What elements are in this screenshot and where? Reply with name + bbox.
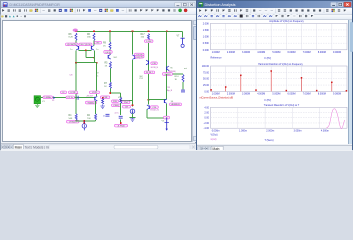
wire mid column x120.7 xyxy=(120,93,122,97)
svg-text:v(out): v(out) xyxy=(210,138,216,141)
current source I2 xyxy=(130,109,135,114)
resistor R9 xyxy=(109,42,111,49)
transistor Q13 labels xyxy=(150,106,159,112)
window R vertical scrollbar xyxy=(348,20,352,145)
window R toolbar row 2 xyxy=(197,15,352,20)
svg-text:R6: R6 xyxy=(87,34,91,36)
svg-text:IC3R: IC3R xyxy=(103,97,108,99)
svg-text:R14: R14 xyxy=(175,76,180,78)
svg-text:9F: 9F xyxy=(76,94,79,96)
wire R17 down xyxy=(148,43,150,101)
wire R9 column xyxy=(109,31,111,54)
window L status strip xyxy=(1,149,197,151)
node VCC label xyxy=(73,29,78,32)
transistor Q1 box label xyxy=(86,101,97,104)
window R status strip xyxy=(197,150,352,151)
resistor R2 label xyxy=(87,115,91,120)
wire V17 node xyxy=(120,100,133,102)
svg-text:1u: 1u xyxy=(96,49,98,51)
svg-text:40p_N: 40p_N xyxy=(167,90,173,92)
label JL P500 xyxy=(115,124,128,127)
svg-text:3.000M: 3.000M xyxy=(242,51,250,54)
schematic vertical scrollbar xyxy=(192,20,197,142)
wire R14 to C11 xyxy=(182,82,184,90)
plot 2 legend xyxy=(199,96,271,101)
svg-text:R5: R5 xyxy=(105,63,109,65)
plots background xyxy=(197,20,348,145)
window L toolbar row 1 xyxy=(1,8,197,15)
window R page tab bar xyxy=(197,145,352,150)
svg-text:96: 96 xyxy=(170,67,173,69)
svg-text:6.000M: 6.000M xyxy=(287,92,295,95)
svg-text:4.000m: 4.000m xyxy=(320,129,328,132)
resistor R7 label xyxy=(104,83,108,88)
svg-text:C9d: C9d xyxy=(124,102,128,104)
svg-text:96.7 Q9 96: 96.7 Q9 96 xyxy=(81,44,92,46)
resistor R5 label xyxy=(105,63,109,68)
transistor Q14 labels xyxy=(163,67,176,76)
svg-text:R7: R7 xyxy=(104,83,108,85)
svg-text:96 96.7: 96 96.7 xyxy=(146,72,154,74)
svg-text:1.50K: 1.50K xyxy=(202,28,209,31)
resistor R2 xyxy=(95,114,97,120)
resistor R7 xyxy=(109,82,111,89)
svg-text:4.000M: 4.000M xyxy=(257,92,265,95)
svg-text:1u: 1u xyxy=(70,49,72,51)
transistor Q5 xyxy=(78,46,80,50)
svg-text:4.7u: 4.7u xyxy=(115,112,120,114)
svg-text:8.000M: 8.000M xyxy=(317,51,325,54)
svg-text:F (Hz): F (Hz) xyxy=(264,99,271,102)
label on output wire xyxy=(164,116,170,119)
svg-text:25.00: 25.00 xyxy=(203,84,210,87)
transistor Q6 xyxy=(107,55,109,59)
label R3 xyxy=(95,41,102,44)
plot 3 frame and grid xyxy=(210,107,347,128)
svg-text:R17: R17 xyxy=(141,34,146,36)
capacitor C1 labels xyxy=(61,91,78,99)
capacitor C11 label xyxy=(167,87,173,92)
transistor Q12 xyxy=(148,61,150,65)
plot 2 y axis labels xyxy=(201,65,209,93)
svg-text:1.00K: 1.00K xyxy=(202,35,209,38)
svg-text:Q5 96(2N): Q5 96(2N) xyxy=(67,44,77,46)
I2 labels xyxy=(123,105,131,108)
resistor R6 label xyxy=(87,34,91,39)
svg-text:JH 8025: JH 8025 xyxy=(69,122,77,124)
wire I2 down xyxy=(130,114,136,118)
transistor Q1 xyxy=(94,97,96,101)
resistor R12 xyxy=(120,97,122,103)
svg-text:966362: 966362 xyxy=(88,102,96,104)
plot 3 transient waveform xyxy=(326,108,345,128)
svg-text:Transient Waveform of V(Out) v: Transient Waveform of V(Out) vs T xyxy=(263,103,299,106)
svg-text:2.00: 2.00 xyxy=(204,111,209,114)
ground below V1 xyxy=(36,104,38,105)
wire Q10 column xyxy=(132,31,134,54)
transistor Q14 xyxy=(166,67,168,71)
svg-text:C1MQ: C1MQ xyxy=(113,105,119,107)
plot 1 frame and grid xyxy=(210,23,347,50)
svg-text:100.00: 100.00 xyxy=(201,65,209,68)
wire collector drop to input xyxy=(96,63,98,96)
svg-text:F (Hz): F (Hz) xyxy=(264,57,271,60)
Distortion Analysis window xyxy=(196,0,353,150)
transistor Q11 labels xyxy=(135,55,144,58)
svg-text:R4: R4 xyxy=(69,115,73,117)
svg-text:2.000m: 2.000m xyxy=(266,129,274,132)
toolbar R row1 icons xyxy=(198,8,347,13)
window R toolbar row 1 xyxy=(197,8,352,15)
wire emitter join xyxy=(75,62,97,64)
plot 1 y axis labels xyxy=(202,22,209,52)
svg-text:50.00: 50.00 xyxy=(203,77,210,80)
wire R7 bottom xyxy=(110,89,121,94)
svg-text:1.000M: 1.000M xyxy=(211,92,219,95)
toolbar L row2 icons xyxy=(1,14,27,18)
wire to R14 xyxy=(167,73,183,75)
svg-text:1K: 1K xyxy=(105,65,108,67)
wire Q9 emitter xyxy=(93,51,95,63)
svg-text:150: 150 xyxy=(141,37,145,39)
svg-text:3.000M: 3.000M xyxy=(242,92,250,95)
wire R8 to Q5 xyxy=(75,41,77,46)
svg-text:JL P500: JL P500 xyxy=(117,126,125,128)
transistor Q12 value text xyxy=(140,76,144,80)
svg-text:V7: V7 xyxy=(177,36,181,38)
svg-text:1.50K: 1.50K xyxy=(146,41,152,43)
wire x76 down xyxy=(75,63,77,96)
transistor Q13 xyxy=(148,105,150,109)
svg-text:V5: V5 xyxy=(162,121,165,123)
resistor R5 xyxy=(109,62,111,69)
svg-text:3.000m: 3.000m xyxy=(293,129,301,132)
svg-text:1n: 1n xyxy=(96,75,98,77)
transistor Q12 pill xyxy=(144,71,155,74)
plot 1 x axis labels xyxy=(211,51,353,54)
capacitor C3 xyxy=(119,115,123,117)
wire Q1 emitter down xyxy=(95,101,97,114)
toolbar R row2 icons xyxy=(198,14,314,18)
plot 2 harmonic spikes xyxy=(210,70,347,91)
source V5 xyxy=(165,118,169,131)
svg-text:Harmonic Distortion of V(Out): Harmonic Distortion of V(Out) vs Frequen… xyxy=(258,62,303,65)
svg-text:E2C45_N: E2C45_N xyxy=(151,110,160,112)
label 1.50K selected xyxy=(145,40,154,43)
transistor Q6 label xyxy=(104,51,112,54)
window L buttons xyxy=(175,2,195,7)
resistor R6 xyxy=(93,33,95,41)
wire x160 lower xyxy=(166,74,168,99)
label IC3R xyxy=(100,96,109,99)
plot 2 frame and grid xyxy=(210,66,347,91)
svg-text:56K: 56K xyxy=(69,118,73,120)
wire Q1 collector up xyxy=(96,95,98,97)
resistor R14 label xyxy=(175,76,180,81)
transistor Q9 xyxy=(90,46,92,50)
svg-text:-4.00: -4.00 xyxy=(203,127,209,130)
resistor Rb column xyxy=(102,97,104,99)
app icon xyxy=(3,2,8,7)
resistor R14 xyxy=(182,75,184,83)
label C9d xyxy=(122,101,130,104)
svg-text:1.000m: 1.000m xyxy=(239,129,247,132)
resistor R9 label xyxy=(103,43,107,48)
wire diff pair base link xyxy=(79,49,92,51)
transistor Q1 upper labels xyxy=(90,91,100,94)
svg-text:0.00K: 0.00K xyxy=(202,48,209,51)
svg-text:5.000M: 5.000M xyxy=(272,92,280,95)
svg-text:1.4MHz: 1.4MHz xyxy=(44,97,51,99)
svg-text:-2.00: -2.00 xyxy=(203,122,209,125)
input arrow mark xyxy=(53,97,55,99)
wire Q10 emitter down xyxy=(132,60,134,107)
svg-text:R8: R8 xyxy=(69,34,73,36)
capacitor C1 xyxy=(75,96,77,100)
source V1 selected xyxy=(34,96,41,104)
wire Q13 emitter L xyxy=(147,110,167,118)
inductor L1 symbol xyxy=(106,113,110,115)
svg-text:0.50K: 0.50K xyxy=(202,42,209,45)
transistor Q10 xyxy=(134,55,136,59)
wire Q16 emitter xyxy=(166,104,168,118)
analysis window icon xyxy=(199,2,204,7)
capacitor C11 xyxy=(181,89,185,91)
svg-text:7.000M: 7.000M xyxy=(302,51,310,54)
svg-text:+BC517: +BC517 xyxy=(86,95,94,97)
svg-text:EC38_N: EC38_N xyxy=(151,67,159,69)
svg-text:out: out xyxy=(184,67,187,70)
capacitor C9 value text xyxy=(96,73,99,78)
wire R12 to C3 xyxy=(120,103,122,115)
schematic canvas xyxy=(2,20,192,142)
transistor Q16 labels xyxy=(170,101,182,106)
resistor R4 xyxy=(75,96,77,114)
wire Q5 emitter xyxy=(75,51,77,63)
ground below Rb xyxy=(102,105,104,106)
svg-text:Q11 96: Q11 96 xyxy=(136,57,143,59)
svg-text:7.000M: 7.000M xyxy=(302,92,310,95)
wire C3 bottom xyxy=(120,120,122,124)
schematic drawing xyxy=(2,21,190,141)
wire rail to V7 xyxy=(182,31,184,37)
svg-text:96: 96 xyxy=(171,101,174,103)
svg-text:IC2R: IC2R xyxy=(92,92,97,94)
svg-text:1n: 1n xyxy=(103,116,105,118)
svg-text:C9: C9 xyxy=(96,73,99,75)
svg-text:Reference: Reference xyxy=(210,56,222,59)
svg-text:2.000M: 2.000M xyxy=(226,92,234,95)
svg-text:ALM0103: ALM0103 xyxy=(171,103,179,106)
svg-text:C1 1u: C1 1u xyxy=(68,97,73,99)
analysis plots xyxy=(198,19,348,144)
svg-text:4.000M: 4.000M xyxy=(257,51,265,54)
resistor R12 labels xyxy=(112,100,121,107)
wire x160 column xyxy=(166,31,168,74)
current source I1 xyxy=(82,121,86,130)
window L title bar xyxy=(1,1,197,8)
node dots on power rail xyxy=(75,31,167,33)
svg-text:0.00: 0.00 xyxy=(204,116,209,119)
wire R5 to R7 xyxy=(109,69,111,83)
svg-text:0.00: 0.00 xyxy=(204,90,209,93)
battery V7 xyxy=(180,38,184,47)
ground below I2 xyxy=(132,118,134,119)
toolbar icons window L xyxy=(0,0,196,21)
resistor R17 label xyxy=(141,34,146,39)
window L toolbar row 2 xyxy=(1,15,197,21)
plot 3 x axis labels xyxy=(211,129,353,132)
svg-text:2C55R: 2C55R xyxy=(165,74,172,76)
svg-text:1K: 1K xyxy=(104,86,107,88)
schematic page tab bar xyxy=(1,143,197,149)
svg-text:700: 700 xyxy=(87,118,91,120)
plot 1 legend xyxy=(210,56,271,59)
svg-text:P52: P52 xyxy=(140,78,143,80)
wire R bottom join xyxy=(76,120,95,122)
toolbar icons window R xyxy=(196,0,353,19)
wire Q13 output stage xyxy=(149,100,167,105)
wire base link xyxy=(85,50,95,59)
wire R6 to Q9 xyxy=(93,41,95,46)
transistor Q16 xyxy=(163,99,165,103)
resistor R17 xyxy=(148,34,150,41)
svg-text:Amplitude of V(Out) vs Frequen: Amplitude of V(Out) vs Frequency xyxy=(269,20,304,23)
svg-text:1.000M: 1.000M xyxy=(211,51,219,54)
wire input xyxy=(41,97,95,99)
plot 3 legend xyxy=(210,133,273,141)
input label 1.4MHz xyxy=(43,96,53,99)
transistor Q10 labels xyxy=(135,53,145,59)
resistor R4 label xyxy=(69,115,73,120)
svg-text:8.2K: 8.2K xyxy=(69,37,74,39)
current source I1 dot xyxy=(84,122,86,124)
svg-text:V1: V1 xyxy=(42,101,45,103)
transistor Q12 labels xyxy=(151,62,159,69)
svg-text:R9: R9 xyxy=(103,43,107,45)
main application window (schematic editor) xyxy=(0,0,196,150)
node dot I2 top xyxy=(132,104,134,106)
resistor Rb xyxy=(102,99,104,105)
svg-text:V(Out): V(Out) xyxy=(210,133,217,136)
svg-text:0.000m: 0.000m xyxy=(211,129,219,132)
svg-text:C8: C8 xyxy=(70,75,74,77)
svg-text:1K: 1K xyxy=(103,45,106,47)
svg-text:2.00K: 2.00K xyxy=(202,22,209,25)
svg-text:T (Secs): T (Secs) xyxy=(264,138,273,141)
svg-text:9.000M: 9.000M xyxy=(333,92,341,95)
plot 2 x axis labels xyxy=(211,92,353,95)
svg-text:8.000M: 8.000M xyxy=(317,92,325,95)
resistor R8 xyxy=(75,33,77,41)
label JH 8025 xyxy=(67,120,80,123)
toolbar L row1 icons xyxy=(1,8,188,13)
svg-text:9.000M: 9.000M xyxy=(333,51,341,54)
svg-text:75.00: 75.00 xyxy=(203,71,210,74)
svg-text:2.000M: 2.000M xyxy=(226,51,234,54)
window R buttons xyxy=(331,2,351,7)
svg-text:180: 180 xyxy=(87,37,91,39)
transistor Q5 labels xyxy=(66,43,93,46)
plot 3 y axis labels xyxy=(203,106,209,130)
window R title bar xyxy=(197,1,352,8)
wire top power rail xyxy=(76,30,183,32)
svg-text:96C: 96C xyxy=(114,57,118,59)
svg-text:e(CurrentSource_Distortion) dB: e(CurrentSource_Distortion) dB xyxy=(199,96,233,99)
svg-text:F1: F1 xyxy=(52,100,54,102)
svg-text:R2: R2 xyxy=(87,115,91,117)
svg-text:5.000M: 5.000M xyxy=(272,51,280,54)
svg-text:4.00: 4.00 xyxy=(204,106,209,109)
svg-text:Q6 96: Q6 96 xyxy=(105,52,111,54)
emitter value labels xyxy=(70,49,98,51)
svg-text:1K: 1K xyxy=(175,79,178,81)
resistor R8 label xyxy=(69,34,74,39)
svg-text:6.000M: 6.000M xyxy=(287,51,295,54)
